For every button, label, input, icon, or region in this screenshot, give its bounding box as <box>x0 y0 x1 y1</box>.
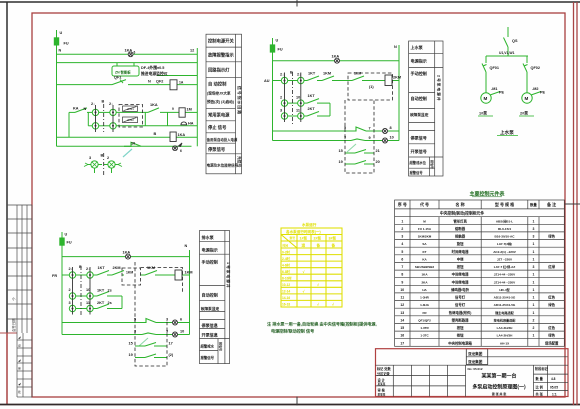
lamp 1KA TM <box>335 58 340 63</box>
svg-text:1M: 1M <box>187 108 192 112</box>
svg-text:AU: AU <box>264 79 270 83</box>
svg-text:2↓: 2↓ <box>91 102 95 106</box>
svg-text:N: N <box>148 80 151 84</box>
svg-text:预告(次) (3)启动): 预告(次) (3)启动) <box>207 99 235 104</box>
svg-text:随主电路选配: 随主电路选配 <box>495 310 514 315</box>
svg-text:2: 2 <box>69 288 71 292</box>
svg-text:某某第一期一台: 某某第一期一台 <box>480 373 516 380</box>
svg-text:1KM: 1KM <box>126 271 133 275</box>
svg-text:19: 19 <box>339 160 343 164</box>
contact BL dashed row1 <box>135 345 145 347</box>
contact 2KT TM <box>307 112 319 117</box>
svg-text:回路指示灯: 回路指示灯 <box>208 67 230 74</box>
svg-text:审: 审 <box>18 367 21 371</box>
svg-text:报警信号: 报警信号 <box>410 170 424 175</box>
svg-text:3: 3 <box>532 265 534 269</box>
svg-text:2↓: 2↓ <box>86 267 90 271</box>
svg-text:No: 05.012: No: 05.012 <box>468 367 483 371</box>
svg-text:5: 5 <box>344 126 346 130</box>
button SA1 TM <box>281 77 287 83</box>
svg-text:第 张 共 张: 第 张 共 张 <box>492 391 508 396</box>
red tick at left <box>0 332 17 334</box>
dashed box TM upper <box>348 73 393 100</box>
svg-text:B: B <box>102 100 105 104</box>
svg-text:U: U <box>276 39 279 43</box>
breaker QF1 TR <box>482 64 486 73</box>
svg-text:塑壳断路器: 塑壳断路器 <box>452 317 470 322</box>
svg-text:2↓: 2↓ <box>69 267 73 271</box>
svg-text:3: 3 <box>69 301 71 305</box>
svg-text:U: U <box>60 31 63 35</box>
svg-text:JZ7 ~220V: JZ7 ~220V <box>497 257 513 261</box>
svg-text:中央控制电源箱: 中央控制电源箱 <box>448 340 472 345</box>
svg-text:5: 5 <box>401 250 403 254</box>
svg-text:15: 15 <box>400 326 404 330</box>
svg-text:1: 1 <box>532 334 534 338</box>
svg-text:蜂鸣器/电铃: 蜂鸣器/电铃 <box>451 287 470 292</box>
svg-text:√: √ <box>303 270 305 274</box>
vertical link rung4-rung6 <box>68 112 70 137</box>
stem lines TM buttons <box>284 73 286 123</box>
svg-text:12: 12 <box>400 303 404 307</box>
svg-text:2-4时: 2-4时 <box>282 256 291 261</box>
svg-text:AH-1X: AH-1X <box>500 341 510 345</box>
fin contact TM r6 <box>351 139 365 141</box>
PE wire M1 <box>490 92 500 96</box>
dashed box BL coil <box>141 268 183 293</box>
svg-text:排水泵: 排水泵 <box>202 234 215 240</box>
svg-text:1: 1 <box>401 219 403 223</box>
svg-text:14: 14 <box>400 318 404 322</box>
paper edge right (red double) <box>573 2 575 405</box>
svg-text:N: N <box>185 244 188 248</box>
svg-text:11: 11 <box>296 109 300 113</box>
svg-text:数量: 数量 <box>529 202 537 207</box>
svg-text:自 动控制: 自 动控制 <box>208 81 227 88</box>
svg-text:(2): (2) <box>169 353 174 357</box>
wire TM rungB <box>288 102 298 104</box>
svg-text:控制电源开关: 控制电源开关 <box>208 38 234 45</box>
svg-text:-M2: -M2 <box>532 87 539 91</box>
svg-text:0-2时: 0-2时 <box>282 249 291 254</box>
svg-text:3: 3 <box>280 109 282 113</box>
button SB4 <box>110 123 116 129</box>
svg-text:10-12: 10-12 <box>282 283 290 287</box>
svg-text:名 称: 名 称 <box>456 201 465 207</box>
breaker QF2 TR <box>523 64 527 73</box>
svg-text:1A: 1A <box>179 81 184 85</box>
breaker contact QF1 <box>112 80 126 85</box>
svg-text:1KA: 1KA <box>150 103 158 107</box>
svg-text:1KM: 1KM <box>185 271 193 275</box>
svg-text:代 号: 代 号 <box>419 201 429 207</box>
contact in dbox BL <box>145 271 157 276</box>
paper edge left <box>6 2 8 333</box>
svg-text:1KM: 1KM <box>354 72 361 76</box>
dashed TM <box>292 72 392 173</box>
svg-text:手动控制: 手动控制 <box>202 259 218 265</box>
svg-text:1:1: 1:1 <box>552 392 557 396</box>
svg-text:2KM: 2KM <box>393 76 401 80</box>
svg-text:停泵信号: 停泵信号 <box>208 146 226 153</box>
svg-text:15: 15 <box>339 149 343 153</box>
button SBb standalone <box>108 161 115 168</box>
svg-text:电源指示: 电源指示 <box>202 247 218 253</box>
svg-text:3: 3 <box>89 156 91 160</box>
svg-text:AD11-25/41-5G: AD11-25/41-5G <box>494 296 516 300</box>
svg-text:绿色: 绿色 <box>548 234 555 239</box>
svg-text:接触器: 接触器 <box>455 234 466 239</box>
fin contact BL r5 <box>140 319 156 323</box>
svg-text:光信号: 光信号 <box>237 155 242 168</box>
svg-text:2KM1: 2KM1 <box>127 107 134 111</box>
svg-text:1KM: 1KM <box>323 72 331 76</box>
lamp 1KA BL <box>126 254 131 259</box>
lamp BL r6 <box>173 332 178 337</box>
svg-text:多泵启动控制原理图(一): 多泵启动控制原理图(一) <box>472 384 526 391</box>
svg-text:超警戒水: 超警戒水 <box>200 344 215 349</box>
motor M2 <box>522 93 532 103</box>
motor M1 <box>481 93 491 103</box>
wire rail rung7 <box>57 145 192 147</box>
svg-text:1: 1 <box>532 280 534 284</box>
svg-text:2#泵: 2#泵 <box>314 236 322 241</box>
svg-text:按电机容量选配: 按电机容量选配 <box>494 317 517 322</box>
svg-text:5: 5 <box>134 318 136 322</box>
svg-text:红色: 红色 <box>548 295 555 300</box>
svg-text:上水泵: 上水泵 <box>411 44 424 50</box>
button SA2 TM <box>298 77 304 83</box>
svg-text:QF1: QF1 <box>114 76 121 80</box>
svg-text:2#泵: 2#泵 <box>520 111 528 116</box>
svg-text:-M1: -M1 <box>491 87 498 91</box>
svg-text:自动控制: 自动控制 <box>411 95 427 101</box>
monitor box U1 <box>112 66 139 76</box>
svg-text:√: √ <box>317 303 319 307</box>
svg-text:8: 8 <box>401 273 403 277</box>
contact 2KM BL <box>112 271 124 276</box>
fin contact BL r6 <box>142 333 156 335</box>
contact TM dashed row2 <box>345 163 355 165</box>
svg-text:注 排水泵一用一备,自动轮换 由中央信号箱(控制柜)提供: 注 排水泵一用一备,自动轮换 由中央信号箱(控制柜)提供电源, <box>267 321 377 327</box>
wire TL right bus <box>196 48 198 146</box>
contact 1KT2 BL <box>97 292 109 297</box>
svg-text:FU: FU <box>64 42 69 46</box>
svg-text:B: B <box>290 71 293 75</box>
button SC2 BL <box>87 272 93 278</box>
svg-text:1KA: 1KA <box>421 273 428 277</box>
stem lines BL buttons <box>72 267 74 315</box>
svg-text:红色: 红色 <box>548 325 555 330</box>
svg-text:PE: PE <box>540 91 546 95</box>
svg-text:中间继电器: 中间继电器 <box>452 279 470 284</box>
svg-text:1KA: 1KA <box>332 55 340 59</box>
svg-text:绿色: 绿色 <box>548 333 555 338</box>
coil KM rung3 <box>170 80 177 90</box>
svg-text:1KA: 1KA <box>178 133 186 137</box>
wire BL left bus <box>61 232 63 335</box>
svg-text:ZN 智能板: ZN 智能板 <box>115 70 131 75</box>
svg-text:DF-4外围±0.5: DF-4外围±0.5 <box>141 65 164 70</box>
svg-text:2KT: 2KT <box>308 107 316 111</box>
wire TM right bus <box>398 45 400 141</box>
svg-text:某某某: 某某某 <box>377 382 386 386</box>
svg-text:2KM2: 2KM2 <box>127 118 134 122</box>
fuse FU <box>54 38 58 45</box>
svg-text:电源控制/联动控制 信号: 电源控制/联动控制 信号 <box>271 328 314 334</box>
svg-text:时间: 时间 <box>283 244 289 248</box>
svg-text:1KA: 1KA <box>125 49 133 53</box>
svg-text:设: 设 <box>18 344 21 348</box>
bell HA <box>181 122 187 125</box>
svg-text:1 号 泵 电 源 井: 1 号 泵 电 源 井 <box>226 262 231 288</box>
svg-text:1-3HR: 1-3HR <box>420 296 430 300</box>
svg-text:上水泵: 上水泵 <box>500 129 514 136</box>
linkage dashed TM buttons <box>291 72 293 125</box>
svg-text:17: 17 <box>400 341 404 345</box>
contact KA rung4 <box>75 108 87 113</box>
dashed BL <box>81 262 183 366</box>
svg-text:1-3TR: 1-3TR <box>420 326 429 330</box>
button SA5 TM <box>281 113 287 119</box>
svg-text:故障泵显定: 故障泵显定 <box>410 112 429 117</box>
svg-text:1: 1 <box>532 250 534 254</box>
svg-text:1: 1 <box>532 311 534 315</box>
company box <box>466 349 487 365</box>
svg-text:运: 运 <box>302 243 306 248</box>
check mark pale <box>347 144 356 152</box>
svg-text:B: B <box>101 154 104 158</box>
svg-text:现场配置: 现场配置 <box>545 340 559 345</box>
svg-text:1: 1 <box>532 288 534 292</box>
svg-text:故障报警指示: 故障报警指示 <box>208 52 234 59</box>
svg-text:1: 1 <box>532 296 534 300</box>
svg-text:1KM/2KM: 1KM/2KM <box>418 235 432 239</box>
svg-text:电源指示: 电源指示 <box>411 58 427 64</box>
TM labels <box>264 39 401 165</box>
svg-text:报信号: 报信号 <box>219 342 224 351</box>
svg-text:报警信号: 报警信号 <box>200 355 215 360</box>
svg-text:17: 17 <box>169 342 173 346</box>
wire bracket TM <box>329 103 331 116</box>
button SC1 BL <box>69 272 75 278</box>
svg-text:12: 12 <box>190 49 194 53</box>
wire TR feeder <box>507 27 509 37</box>
svg-text:热继电器(附件): 热继电器(附件) <box>449 310 472 315</box>
PE wire M2 <box>531 92 541 96</box>
wire BL rungB <box>76 295 87 297</box>
wire BL rung5 <box>62 322 140 324</box>
svg-text:SB1/SB2/SB3: SB1/SB2/SB3 <box>415 265 435 269</box>
svg-text:电源及水位监控信号: 电源及水位监控信号 <box>207 163 239 168</box>
svg-text:故障泵显定: 故障泵显定 <box>201 306 220 311</box>
svg-text:型 号 规 格: 型 号 规 格 <box>495 201 515 207</box>
svg-text:HD-4型: HD-4型 <box>499 287 510 292</box>
svg-text:ABS/间B1-L: ABS/间B1-L <box>496 218 513 223</box>
svg-text:2↓: 2↓ <box>109 102 113 106</box>
svg-text:FU: FU <box>278 48 283 52</box>
wire BL rung1 <box>62 256 126 258</box>
svg-text:6: 6 <box>134 51 136 55</box>
wire rung2 <box>57 62 198 64</box>
dark symbols BL <box>73 254 183 337</box>
wire rung5 <box>88 125 92 127</box>
svg-text:13: 13 <box>400 311 404 315</box>
button dots TL <box>95 111 115 126</box>
svg-text:3: 3 <box>401 235 403 239</box>
svg-text:14-16: 14-16 <box>282 296 290 300</box>
svg-text:批: 批 <box>18 390 21 394</box>
svg-text:信 号 指 示 回 路: 信 号 指 示 回 路 <box>237 86 242 114</box>
lamp TM r5 <box>383 129 388 134</box>
svg-text:标记 处数: 标记 处数 <box>376 366 391 371</box>
note text <box>267 321 377 334</box>
paper edge bottom <box>0 404 580 406</box>
svg-text:FU: FU <box>67 241 72 245</box>
svg-text:停泵信号: 停泵信号 <box>411 135 427 141</box>
dashed links TL <box>104 104 143 175</box>
button SA4 TM <box>298 100 304 106</box>
svg-text:数 量: 数 量 <box>535 376 544 381</box>
svg-text:3#泵: 3#泵 <box>329 236 337 241</box>
svg-text:LAY-7 红/绿-AZ: LAY-7 红/绿-AZ <box>494 264 516 269</box>
svg-text:KT: KT <box>423 250 427 254</box>
svg-text:2s: 2s <box>108 301 112 305</box>
svg-text:FR: FR <box>52 274 57 278</box>
svg-text:手动控制: 手动控制 <box>411 70 427 76</box>
svg-text:1KT: 1KT <box>98 266 106 270</box>
svg-text:3: 3 <box>166 318 168 322</box>
svg-text:1-3TC: 1-3TC <box>420 334 429 338</box>
svg-text:21: 21 <box>376 149 380 153</box>
svg-text:停泵信息: 停泵信息 <box>202 322 218 328</box>
svg-text:1#泵: 1#泵 <box>479 111 487 116</box>
wire bracket left <box>87 112 89 125</box>
dashed box TM lower <box>345 100 374 173</box>
svg-text:2 号 泵 电 源 井: 2 号 泵 电 源 井 <box>437 75 442 101</box>
stem lines buttons <box>95 105 97 132</box>
svg-text:1: 1 <box>532 303 534 307</box>
svg-text:阶段标记: 阶段标记 <box>535 366 549 371</box>
lamp TM r6 <box>383 138 388 143</box>
wire BL rungA <box>62 274 70 276</box>
svg-text:B: B <box>79 265 82 269</box>
svg-text:2: 2 <box>532 326 534 330</box>
svg-text:2s: 2s <box>108 289 112 293</box>
svg-text:比 例: 比 例 <box>536 384 544 389</box>
dashed box BL aux <box>122 268 141 285</box>
svg-text:泵号: 泵号 <box>290 236 296 240</box>
svg-text:10: 10 <box>400 288 404 292</box>
contact 2KT BL <box>97 304 109 309</box>
centering tick top <box>296 0 298 7</box>
lamp HL rung7 <box>173 146 178 151</box>
svg-text:QF01: QF01 <box>490 66 500 70</box>
switch QS <box>504 38 509 48</box>
svg-text:LA4-2H/3H: LA4-2H/3H <box>497 326 513 330</box>
svg-text:(现场控JX大泵: (现场控JX大泵 <box>207 91 231 96</box>
svg-text:LA4-2H/3H: LA4-2H/3H <box>497 334 513 338</box>
svg-text:备 注: 备 注 <box>546 201 556 207</box>
svg-text:1: 1 <box>532 273 534 277</box>
svg-text:自动控制: 自动控制 <box>202 292 218 298</box>
svg-text:9: 9 <box>401 280 403 284</box>
svg-text:1KT: 1KT <box>308 94 316 98</box>
svg-text:4.8: 4.8 <box>551 377 556 381</box>
svg-text:亚龙集团: 亚龙集团 <box>468 351 483 356</box>
svg-text:N: N <box>84 107 87 111</box>
dark symbols TL <box>96 52 187 151</box>
svg-text:1KM: 1KM <box>147 266 155 270</box>
svg-text:3: 3 <box>166 330 168 334</box>
fin contact rung7 <box>124 142 141 146</box>
centering tick right <box>565 203 580 205</box>
svg-text:1KT: 1KT <box>97 289 105 293</box>
wire loop verticals <box>144 112 146 125</box>
svg-text:15: 15 <box>129 342 133 346</box>
wire TM rungA <box>273 80 282 82</box>
svg-text:主要控制元件表: 主要控制元件表 <box>469 191 505 198</box>
svg-text:9: 9 <box>172 107 174 111</box>
svg-text:3: 3 <box>532 227 534 231</box>
svg-text:1: 1 <box>532 219 534 223</box>
svg-text:N: N <box>394 45 397 49</box>
branch M2 wire <box>526 56 528 63</box>
linkage dashed BL buttons <box>80 266 82 316</box>
svg-text:开泵信号: 开泵信号 <box>411 148 427 154</box>
svg-text:7: 7 <box>401 265 403 269</box>
svg-text:各水泵运行时间表(一): 各水泵运行时间表(一) <box>285 229 322 234</box>
svg-text:M: M <box>484 96 488 101</box>
TL labels <box>59 31 195 160</box>
contact 1KM TM <box>322 76 334 81</box>
svg-text:7: 7 <box>369 127 371 131</box>
svg-text:8: 8 <box>390 126 392 130</box>
wire BL rungC <box>76 308 87 310</box>
svg-text:4: 4 <box>401 242 403 246</box>
button SC3 BL <box>69 293 75 299</box>
wire TM left bus <box>272 38 274 141</box>
svg-text:时间继电器: 时间继电器 <box>452 249 470 254</box>
svg-text:2KM: 2KM <box>113 266 121 270</box>
svg-text:3: 3 <box>532 235 534 239</box>
wire TL left bus <box>56 30 58 146</box>
svg-text:KA: KA <box>73 107 79 111</box>
svg-text:2: 2 <box>532 318 534 322</box>
svg-text:1: 1 <box>532 257 534 261</box>
button SC4 BL <box>87 293 93 299</box>
wire rung3 <box>57 84 113 86</box>
svg-text:信号灯: 信号灯 <box>455 302 466 307</box>
button SA6 TM <box>298 113 304 119</box>
lamp BL r5 <box>173 320 178 325</box>
svg-text:16-18: 16-18 <box>282 303 290 307</box>
lamp 1KA rung1 <box>128 52 133 57</box>
svg-text:序 号: 序 号 <box>397 201 407 207</box>
svg-text:N: N <box>59 49 62 53</box>
signature strip tiny marks <box>11 296 21 394</box>
paper edge top <box>0 1 580 3</box>
underline 1#泵 <box>478 115 493 117</box>
coil 2KM TM <box>385 75 392 86</box>
wire BL rung6 <box>62 334 142 336</box>
svg-text:绿色: 绿色 <box>548 302 555 307</box>
aux rect 2KM1 <box>123 106 138 111</box>
paper edge left lower (red) <box>6 333 8 405</box>
svg-text:超警戒水位: 超警戒水位 <box>409 160 427 165</box>
BL labels <box>52 233 193 358</box>
svg-text:2: 2 <box>401 227 403 231</box>
